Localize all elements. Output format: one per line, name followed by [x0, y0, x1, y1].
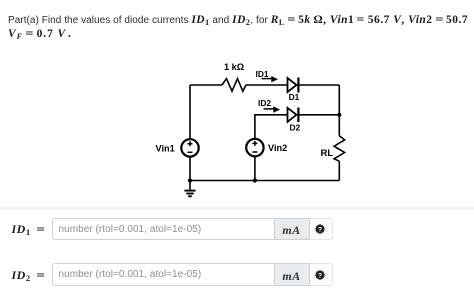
arrow ID1	[262, 76, 279, 82]
resistor 1kΩ	[222, 79, 246, 92]
wire left vertical (top node to Vin1)	[189, 85, 191, 139]
wire Vin2 top riser	[255, 115, 288, 139]
svg-text:D2: D2	[290, 123, 301, 133]
diode D1	[288, 78, 299, 93]
wire RL to bottom	[338, 161, 340, 180]
svg-text:RL: RL	[321, 148, 334, 159]
Vin2 plus sign	[252, 141, 257, 146]
svg-text:ID1: ID1	[256, 69, 269, 79]
svg-text:?: ?	[318, 272, 322, 279]
svg-text:?: ?	[318, 227, 322, 234]
svg-text:D1: D1	[289, 92, 300, 102]
Vin2 minus sign	[252, 151, 257, 153]
wire Vin1 bottom	[189, 157, 191, 181]
answer row ID1	[0, 0, 474, 1]
Vin1 plus sign	[188, 141, 193, 146]
resistor RL	[334, 136, 345, 162]
diode D2	[288, 108, 299, 123]
node junction ground	[188, 178, 192, 182]
svg-text:Vin1: Vin1	[156, 144, 175, 154]
problem statement line 1	[8, 14, 468, 27]
ground	[184, 181, 195, 197]
wire Vin2 bottom	[254, 156, 256, 180]
wire D2 to junction	[298, 114, 339, 116]
answer row ID2	[0, 0, 474, 1]
svg-text:1 kΩ: 1 kΩ	[224, 62, 244, 72]
Vin1 minus sign	[188, 151, 193, 153]
wire top left	[190, 84, 222, 86]
divider	[0, 207, 474, 210]
arrow ID2	[264, 106, 281, 112]
wire D1 to right	[298, 84, 339, 86]
svg-text:Vin2: Vin2	[268, 143, 287, 153]
svg-text:ID2: ID2	[258, 98, 271, 108]
node junction Vin2 bottom	[253, 178, 257, 182]
wire bottom	[190, 180, 339, 182]
problem statement line 2	[8, 28, 72, 41]
node junction D2-RL	[337, 113, 341, 117]
source Vin2	[246, 139, 263, 156]
wire resistor to D1	[246, 84, 288, 86]
wire right vertical top	[338, 85, 340, 136]
source Vin1	[181, 139, 198, 156]
